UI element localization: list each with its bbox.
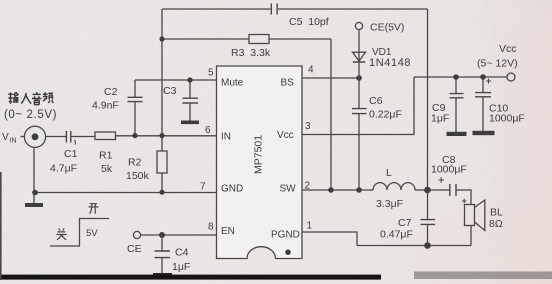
svg-text:6: 6 bbox=[205, 125, 211, 136]
wire: C1 to R1 bbox=[71, 136, 95, 138]
wire: C5 right plate to SW drop corner bbox=[278, 8, 427, 10]
waveform annotation 开/关 5V bbox=[50, 204, 109, 246]
svg-text:CE(5V): CE(5V) bbox=[370, 22, 404, 34]
ground bar under C9 bbox=[447, 132, 467, 136]
svg-text:0.47μF: 0.47μF bbox=[380, 229, 413, 241]
input jack VIN bbox=[2, 126, 46, 147]
svg-text:1000μF: 1000μF bbox=[489, 113, 525, 125]
wire: R3 row (node A to x=331) bbox=[162, 38, 331, 40]
wire: pin 3 Vcc to supply riser bbox=[302, 77, 414, 135]
wire: pin 2 SW to inductor bbox=[302, 189, 373, 191]
wire: vertical from R3 down to SW line (x=331) bbox=[330, 39, 332, 190]
svg-text:4.9nF: 4.9nF bbox=[92, 100, 119, 112]
capacitor C8 bbox=[431, 154, 467, 196]
svg-text:8: 8 bbox=[208, 222, 214, 233]
svg-text:R3 3.3k: R3 3.3k bbox=[231, 47, 271, 59]
node: junction node-A vertical on IN line bbox=[159, 133, 164, 138]
svg-text:Vcc: Vcc bbox=[499, 43, 517, 55]
svg-text:5k: 5k bbox=[101, 163, 113, 175]
svg-text:MP7501: MP7501 bbox=[253, 135, 265, 174]
node: junction L/C7/C8 output node bbox=[424, 187, 431, 194]
svg-text:5V: 5V bbox=[86, 228, 98, 239]
node: junction R3 drop on SW line bbox=[328, 187, 334, 193]
node: junction C4 top on EN wire bbox=[159, 232, 165, 238]
wire: CE to pin 8 EN bbox=[141, 234, 217, 236]
svg-text:3: 3 bbox=[305, 121, 311, 132]
capacitor C5 bbox=[271, 4, 328, 29]
capacitor C4 bbox=[155, 235, 191, 274]
svg-text:C5 10pf: C5 10pf bbox=[289, 16, 329, 28]
svg-text:C2: C2 bbox=[104, 86, 118, 98]
svg-text:1μF: 1μF bbox=[172, 261, 190, 273]
svg-text:1000μF: 1000μF bbox=[431, 164, 467, 176]
svg-text:CE: CE bbox=[127, 243, 142, 255]
capacitor C1 bbox=[50, 131, 78, 175]
svg-text:BL: BL bbox=[490, 207, 503, 219]
page artifact: bottom black rule bbox=[0, 275, 381, 280]
svg-text:(5~ 12V): (5~ 12V) bbox=[477, 58, 518, 70]
wire: bottom return run bbox=[357, 245, 471, 247]
wire: speaker bottom down bbox=[470, 226, 472, 246]
node: junction C10 on rail bbox=[480, 74, 486, 80]
svg-text:4.7μF: 4.7μF bbox=[50, 163, 77, 175]
svg-text:IN: IN bbox=[10, 138, 17, 145]
capacitor C3 bbox=[163, 80, 198, 121]
label: input audio 输入音频 (drawn as strokes) bbox=[8, 92, 53, 104]
node: junction C2 bottom on IN line bbox=[132, 133, 137, 138]
wire: jack to C1 bbox=[46, 136, 66, 138]
svg-text:7: 7 bbox=[200, 182, 206, 193]
svg-text:EN: EN bbox=[221, 226, 235, 237]
capacitor C6 bbox=[352, 78, 402, 190]
svg-text:C7: C7 bbox=[398, 217, 412, 229]
wire: output node to C8 bbox=[428, 189, 450, 191]
wire: vertical node A run (x=162, top wire to IN node) bbox=[161, 9, 163, 136]
node: junction C7 bottom on return run bbox=[424, 242, 431, 249]
wire: pin 1 PGND run bbox=[302, 232, 357, 246]
wire: ground row to pin 7 GND bbox=[35, 192, 217, 194]
ground bar under C3 bbox=[181, 121, 199, 125]
terminal Vcc bbox=[477, 43, 518, 81]
wire: mute row, C2 top to pin 5 bbox=[135, 79, 217, 81]
svg-text:C4: C4 bbox=[175, 247, 189, 259]
resistor R1 bbox=[95, 132, 116, 175]
wire: vertical C5/SW drop (x=427.5) bbox=[427, 9, 429, 190]
node: junction node A / R3 (162,39) bbox=[159, 36, 164, 41]
wire: top feedback run, node A to C5 left plate bbox=[162, 8, 270, 10]
svg-text:IN: IN bbox=[221, 132, 231, 143]
wire: pin 4 BS to VD1 node bbox=[302, 77, 359, 79]
svg-text:PGND: PGND bbox=[271, 230, 300, 241]
speaker BL 8ohm bbox=[462, 199, 503, 231]
ground bar under jack bbox=[25, 193, 43, 208]
resistor R2 bbox=[126, 136, 167, 192]
svg-text:Vcc: Vcc bbox=[277, 130, 294, 141]
svg-text:SW: SW bbox=[280, 184, 297, 195]
terminal CE (enable input) bbox=[127, 231, 142, 255]
wire: C8 to speaker bbox=[456, 190, 471, 205]
capacitor C7 bbox=[380, 190, 435, 246]
capacitor C9 bbox=[431, 77, 464, 132]
svg-text:1μF: 1μF bbox=[431, 113, 449, 125]
resistor R3 bbox=[231, 35, 271, 60]
inductor L bbox=[373, 167, 415, 210]
svg-text:0.22μF: 0.22μF bbox=[369, 109, 402, 121]
svg-text:BS: BS bbox=[281, 78, 295, 89]
node: junction jack/ground row bbox=[32, 190, 38, 196]
wire: R1 to pin 6 IN bbox=[116, 135, 217, 137]
svg-text:R2: R2 bbox=[128, 157, 142, 169]
terminal CE(5V) bbox=[355, 22, 404, 34]
pin number labels bbox=[200, 65, 314, 233]
wire: Vcc rail bbox=[414, 76, 507, 78]
svg-text:150k: 150k bbox=[126, 170, 150, 182]
svg-text:Mute: Mute bbox=[221, 78, 244, 89]
wire: inductor to output node bbox=[415, 189, 428, 191]
node: junction C6 bottom on SW line bbox=[356, 187, 362, 193]
node: junction C9 on rail bbox=[453, 74, 459, 80]
svg-text:C6: C6 bbox=[369, 95, 383, 107]
svg-text:1: 1 bbox=[307, 221, 313, 232]
svg-text:3.3μF: 3.3μF bbox=[376, 198, 403, 210]
svg-text:5: 5 bbox=[208, 68, 214, 79]
svg-text:8Ω: 8Ω bbox=[489, 218, 503, 230]
wire: jack shell down bbox=[33, 148, 35, 193]
ground bar under C10 bbox=[473, 131, 495, 135]
node: junction BS / VD1 / C6 bbox=[356, 75, 362, 81]
svg-text:L: L bbox=[386, 167, 392, 179]
svg-text:V: V bbox=[2, 132, 9, 143]
svg-text:R1: R1 bbox=[99, 150, 113, 162]
svg-text:1N4148: 1N4148 bbox=[369, 57, 411, 69]
node: junction C3 top (190,80) bbox=[187, 77, 192, 82]
page artifact: left edge line bbox=[0, 172, 2, 280]
svg-text:4: 4 bbox=[308, 65, 314, 76]
capacitor C10 bbox=[475, 77, 525, 131]
svg-text:GND: GND bbox=[221, 184, 243, 195]
svg-text:(0~ 2.5V): (0~ 2.5V) bbox=[4, 109, 57, 121]
node: junction R2 bottom on ground row bbox=[159, 190, 164, 195]
op-amp/IC U1 MP7501 bbox=[217, 66, 303, 259]
svg-text:C1: C1 bbox=[64, 148, 78, 160]
ground bar under C4 bbox=[153, 273, 172, 278]
capacitor C2 bbox=[92, 80, 143, 136]
svg-text:C3: C3 bbox=[163, 85, 177, 97]
page artifact: bottom-right halftone strip bbox=[414, 272, 552, 280]
diode VD1 1N4148 bbox=[353, 30, 412, 78]
